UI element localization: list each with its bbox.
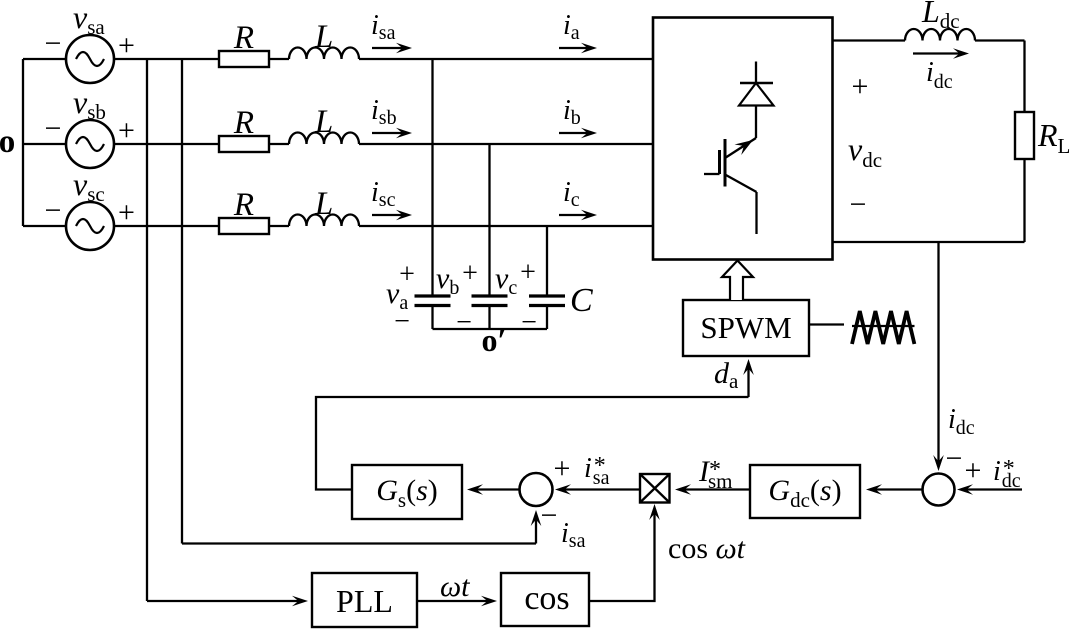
svg-text:Gs(s): Gs(s) [376, 474, 438, 512]
svg-text:R: R [233, 105, 254, 141]
svg-text:o: o [0, 124, 15, 160]
svg-text:+: + [520, 257, 536, 288]
svg-text:o′: o′ [482, 322, 507, 358]
svg-text:+: + [554, 452, 571, 485]
svg-text:cos: cos [524, 580, 569, 617]
svg-text:PLL: PLL [336, 583, 393, 619]
svg-text:−: − [850, 188, 867, 221]
svg-text:ia: ia [563, 10, 580, 44]
svg-text:+: + [118, 114, 135, 147]
svg-text:ib: ib [563, 95, 581, 129]
svg-text:vdc: vdc [848, 131, 882, 172]
svg-text:L: L [314, 104, 333, 140]
svg-text:−: − [45, 112, 62, 145]
svg-text:ic: ic [563, 177, 580, 211]
svg-text:R: R [233, 20, 254, 56]
svg-text:−: − [394, 306, 410, 337]
svg-text:C: C [570, 282, 593, 319]
svg-text:−: − [45, 194, 62, 227]
svg-text:I*sm: I*sm [698, 455, 733, 493]
svg-text:isa: isa [371, 10, 396, 44]
svg-text:ωt: ωt [440, 570, 470, 603]
svg-text:vsa: vsa [73, 0, 105, 39]
svg-text:vc: vc [495, 262, 517, 299]
svg-text:RL: RL [1037, 117, 1070, 158]
svg-text:−: − [946, 442, 963, 475]
svg-text:isc: isc [371, 177, 396, 211]
svg-text:i*sa: i*sa [584, 453, 610, 489]
svg-text:L: L [314, 19, 333, 55]
svg-text:isb: isb [371, 95, 397, 129]
svg-text:+: + [852, 70, 869, 103]
svg-text:+: + [118, 196, 135, 229]
svg-text:vb: vb [436, 262, 459, 299]
svg-text:−: − [456, 307, 472, 338]
svg-text:SPWM: SPWM [700, 310, 791, 345]
svg-text:cos ωt: cos ωt [668, 532, 746, 565]
svg-text:+: + [399, 259, 415, 290]
svg-text:idc: idc [948, 404, 975, 439]
svg-text:idc: idc [926, 57, 953, 93]
svg-text:isa: isa [561, 518, 586, 552]
svg-text:−: − [541, 499, 558, 532]
svg-text:L: L [314, 186, 333, 222]
svg-text:+: + [462, 258, 478, 289]
svg-text:R: R [233, 187, 254, 223]
svg-text:i*dc: i*dc [993, 456, 1021, 492]
svg-text:da: da [714, 357, 739, 393]
svg-text:+: + [965, 454, 982, 487]
svg-text:vsb: vsb [73, 84, 106, 124]
svg-text:Ldc: Ldc [921, 0, 960, 33]
svg-text:−: − [521, 307, 537, 338]
svg-text:vsc: vsc [73, 166, 105, 206]
svg-text:+: + [118, 29, 135, 62]
svg-text:−: − [45, 27, 62, 60]
